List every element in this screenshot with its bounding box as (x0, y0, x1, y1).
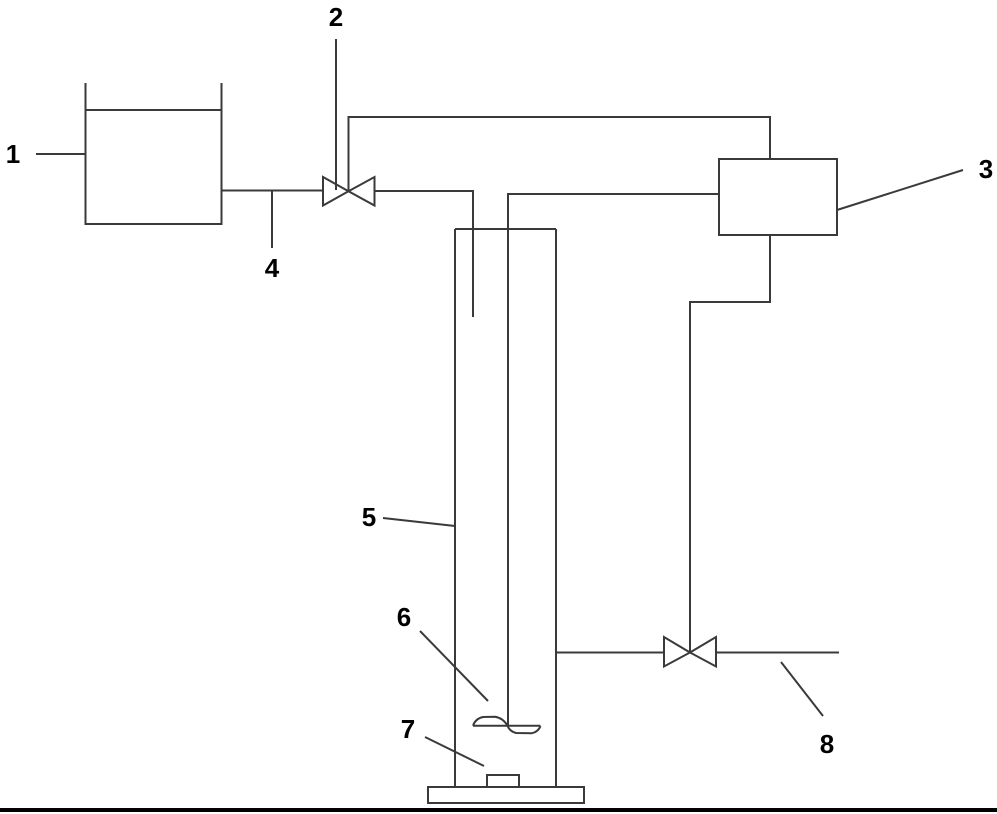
wire valve2 to dip tube (375, 191, 474, 317)
wire column outlet (556, 652, 664, 654)
wire valve2 to box3 top (349, 117, 771, 190)
tank 1 (85, 83, 223, 224)
impeller 6 (473, 717, 541, 733)
wire box3 bottom to valve8 (690, 235, 770, 652)
base plate (428, 787, 584, 803)
node 4 tick (271, 191, 273, 249)
leader 8 (781, 662, 823, 716)
bottom border (0, 808, 997, 812)
wire label-2 stem (335, 39, 337, 190)
box 3 (719, 159, 837, 235)
svg-text:6: 6 (397, 602, 411, 632)
leader 5 (383, 518, 455, 526)
leader 7 (425, 737, 484, 766)
leader 6 (420, 631, 488, 701)
svg-text:4: 4 (265, 253, 280, 283)
leader 1 (36, 153, 86, 155)
wire tank outlet (222, 190, 324, 192)
svg-text:5: 5 (362, 502, 376, 532)
leader 3 (837, 170, 963, 210)
svg-text:3: 3 (979, 154, 993, 184)
valve 8 (664, 637, 716, 667)
valve 2 (323, 177, 375, 206)
heater 7 (487, 775, 519, 787)
wire box3 to shaft (508, 194, 719, 726)
svg-text:8: 8 (820, 729, 834, 759)
svg-text:7: 7 (401, 714, 415, 744)
wire valve8 outlet (716, 652, 839, 654)
svg-text:1: 1 (6, 139, 20, 169)
column 5 (455, 229, 556, 787)
svg-text:2: 2 (329, 2, 343, 32)
